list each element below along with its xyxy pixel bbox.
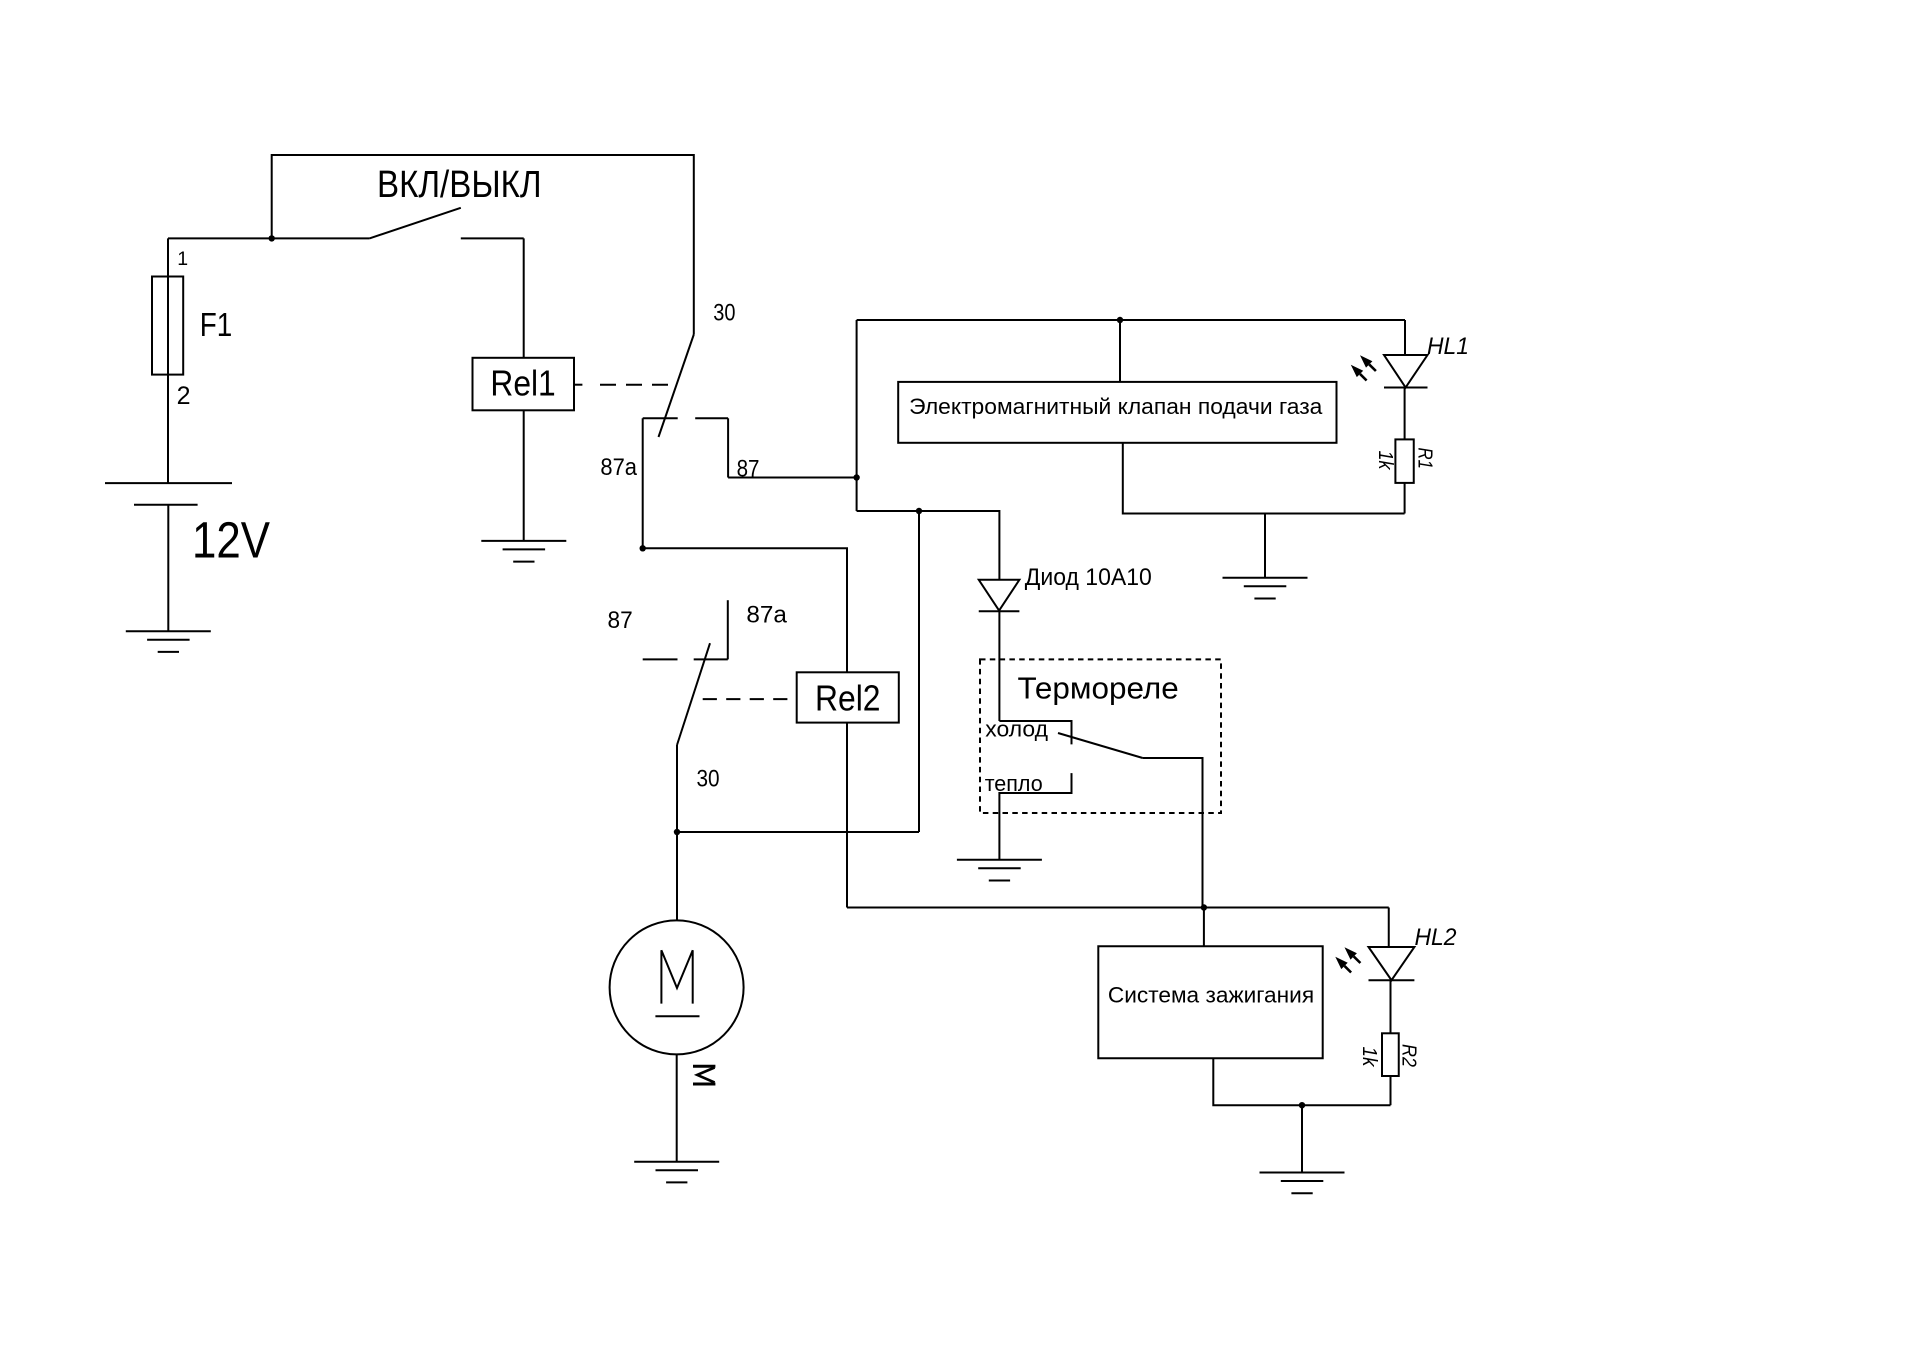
svg-text:1k: 1k: [1358, 1047, 1380, 1068]
svg-text:Система зажигания: Система зажигания: [1108, 983, 1314, 1008]
svg-text:Электромагнитный клапан подачи: Электромагнитный клапан подачи газа: [909, 394, 1323, 419]
svg-text:Rel1: Rel1: [490, 363, 555, 404]
svg-text:R1: R1: [1414, 448, 1436, 470]
svg-text:холод: холод: [985, 717, 1048, 742]
svg-text:Термореле: Термореле: [1018, 670, 1179, 705]
svg-text:F1: F1: [200, 306, 233, 343]
svg-text:HL2: HL2: [1415, 924, 1457, 951]
svg-text:1: 1: [177, 248, 188, 270]
svg-text:30: 30: [713, 300, 735, 327]
svg-text:Диод 10А10: Диод 10А10: [1025, 564, 1152, 591]
svg-text:12V: 12V: [192, 511, 270, 568]
svg-text:87: 87: [608, 607, 633, 634]
svg-text:87a: 87a: [746, 601, 787, 628]
svg-text:HL1: HL1: [1427, 333, 1469, 360]
svg-text:1k: 1k: [1374, 451, 1396, 471]
svg-text:2: 2: [177, 382, 191, 410]
svg-text:тепло: тепло: [985, 771, 1043, 796]
svg-text:Rel2: Rel2: [815, 677, 881, 718]
svg-text:87a: 87a: [600, 454, 637, 481]
svg-text:ВКЛ/ВЫКЛ: ВКЛ/ВЫКЛ: [377, 164, 542, 206]
svg-text:87: 87: [737, 455, 760, 482]
svg-text:R2: R2: [1398, 1044, 1420, 1067]
svg-text:30: 30: [697, 766, 720, 793]
